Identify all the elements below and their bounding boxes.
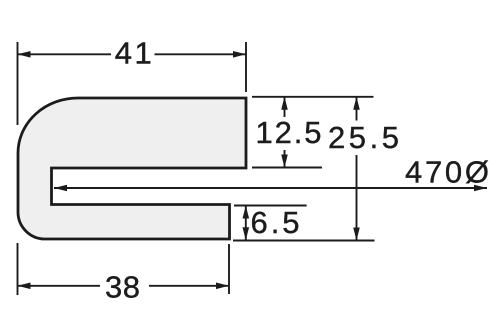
svg-text:25.5: 25.5 bbox=[328, 120, 399, 155]
svg-text:470Ø: 470Ø bbox=[405, 154, 489, 189]
svg-text:38: 38 bbox=[105, 270, 140, 305]
svg-text:12.5: 12.5 bbox=[256, 115, 322, 150]
svg-text:6.5: 6.5 bbox=[251, 205, 300, 240]
